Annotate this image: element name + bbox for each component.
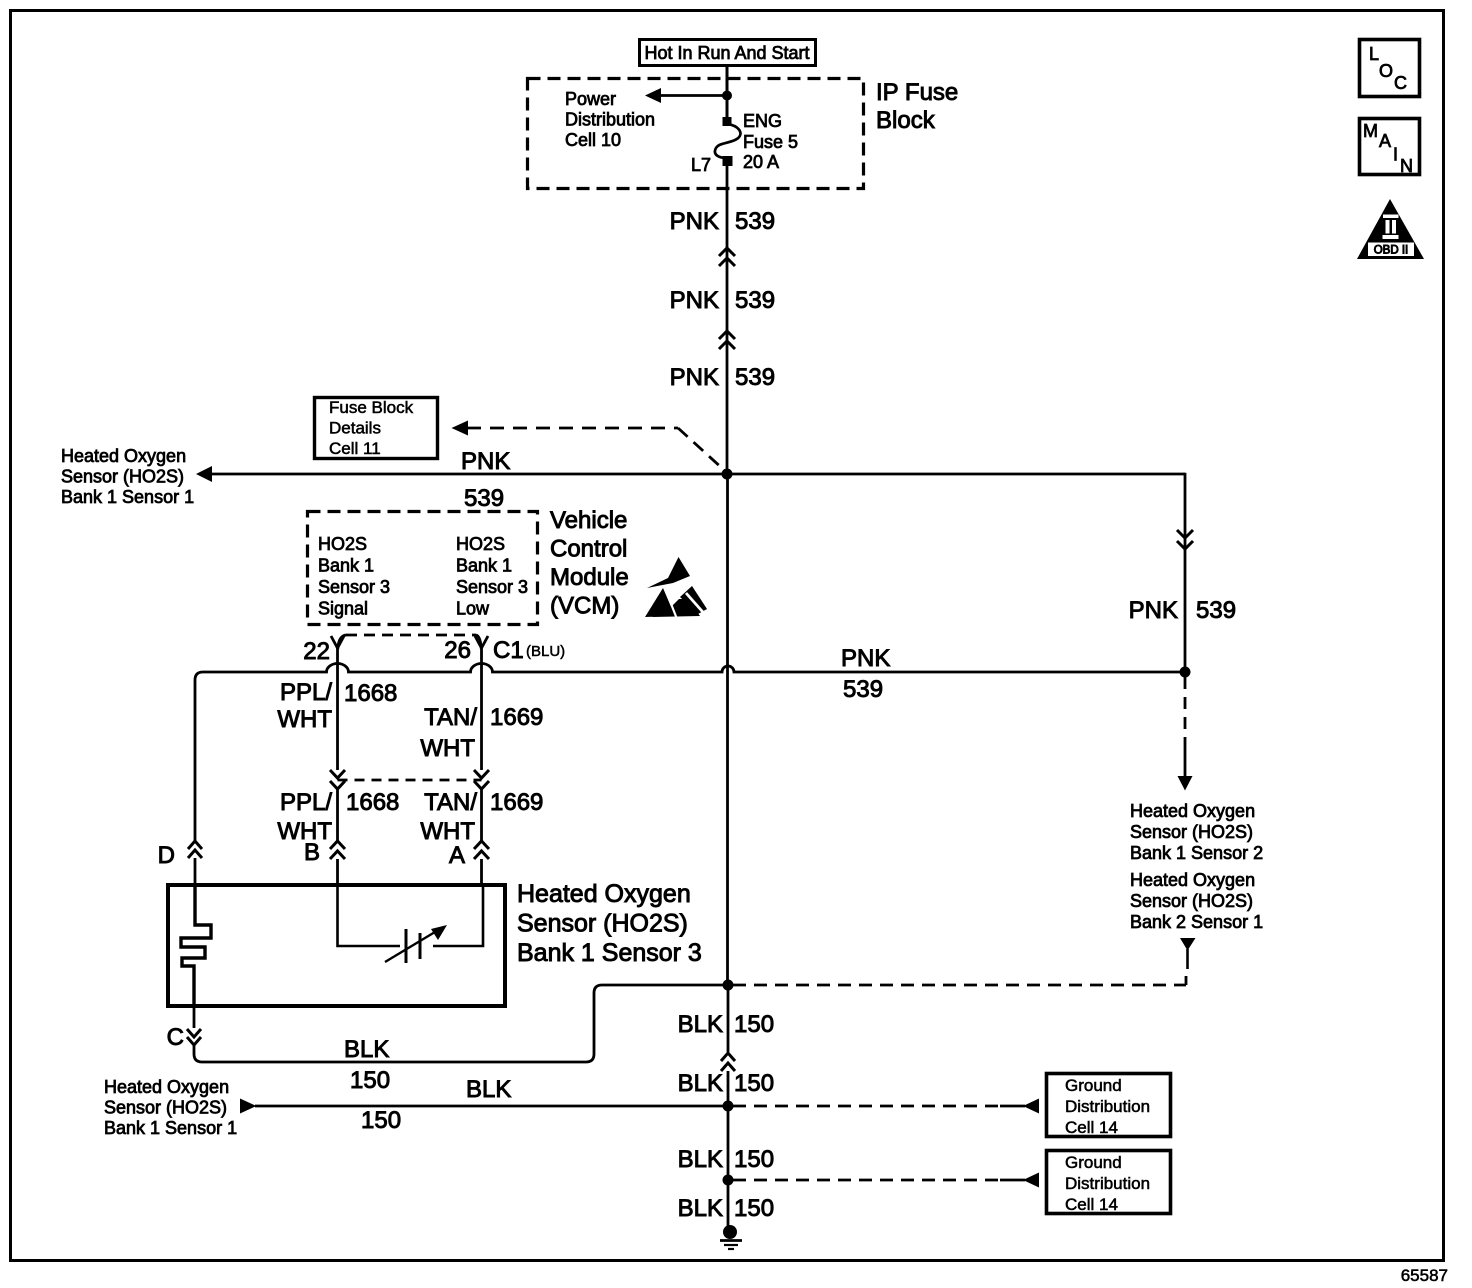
svg-text:Cell 11: Cell 11 [329, 439, 381, 458]
svg-text:539: 539 [735, 287, 775, 314]
svg-text:OBD II: OBD II [1374, 245, 1409, 257]
connector chevrons down on right PNK wire [1177, 530, 1193, 549]
svg-text:Bank 2 Sensor 1: Bank 2 Sensor 1 [1130, 912, 1263, 932]
svg-text:PNK: PNK [841, 645, 890, 672]
dashed wire to ground distribution 2 [733, 1179, 1000, 1182]
sensor pin A chevrons [474, 841, 489, 859]
svg-text:26: 26 [444, 637, 471, 664]
svg-text:Fuse Block: Fuse Block [329, 398, 414, 417]
pin 26 terminal [475, 636, 488, 648]
connector chevrons on BLK wire [721, 1053, 735, 1071]
wire 1668 lower [336, 789, 339, 841]
wire BLK main vertical [726, 474, 729, 985]
svg-text:BLK: BLK [678, 1011, 723, 1038]
svg-text:150: 150 [350, 1067, 390, 1094]
svg-text:Ground: Ground [1065, 1153, 1122, 1172]
svg-text:150: 150 [734, 1070, 774, 1097]
label BLK 150 fourth [678, 1195, 774, 1222]
label BLK 150 horizontal [361, 1076, 511, 1134]
svg-text:539: 539 [1196, 597, 1236, 624]
wire pin B internal [338, 886, 401, 946]
arrow to ground distribution 2 [1023, 1173, 1039, 1188]
IP Fuse Block label [876, 79, 958, 134]
wire BLK to ground junction [727, 1071, 730, 1180]
wire 1669 lower [480, 789, 483, 841]
node Heated Oxygen Sensor (HO2S) Bank 1 Sensor 2 [1130, 801, 1263, 863]
label BLK 150 third [678, 1146, 774, 1173]
wire PNK 539 fuse to main junction [726, 165, 729, 474]
svg-text:Ground: Ground [1065, 1076, 1122, 1095]
arrow down to HO2S sensors [1184, 744, 1187, 777]
svg-text:65587: 65587 [1401, 1266, 1448, 1285]
variable sense element [385, 929, 440, 963]
svg-text:Signal: Signal [318, 599, 368, 619]
svg-text:I: I [1393, 145, 1398, 165]
OBD II legend triangle [1357, 199, 1424, 259]
svg-text:Distribution: Distribution [1065, 1174, 1150, 1193]
junction BLK node S [723, 980, 734, 991]
connector chevrons on PNK wire [719, 248, 735, 266]
dashed hook up to right branch arrow [1185, 976, 1188, 985]
in-line connector chevrons pin B side [330, 770, 345, 789]
svg-text:TAN/: TAN/ [424, 704, 477, 731]
svg-text:IP Fuse: IP Fuse [876, 79, 958, 106]
svg-text:539: 539 [464, 485, 504, 512]
sensor label Heated Oxygen Sensor (HO2S) Bank 1 Sensor 3 [517, 880, 702, 967]
label PNK 539 horizontal [461, 448, 510, 512]
svg-text:Heated Oxygen: Heated Oxygen [517, 880, 691, 908]
sensor HO2S Bank 1 Sensor 3 box [168, 885, 505, 1006]
svg-text:Distribution: Distribution [1065, 1097, 1150, 1116]
svg-text:Block: Block [876, 107, 936, 134]
label BLK 150 from C [344, 1036, 390, 1094]
svg-text:1668: 1668 [344, 680, 397, 707]
svg-text:B: B [304, 839, 320, 866]
svg-text:150: 150 [734, 1011, 774, 1038]
svg-text:Low: Low [456, 599, 490, 619]
dashed wire to HO2S right branch [733, 984, 1186, 987]
wire BLK 150 to HO2S bank1 sensor1 [255, 1105, 728, 1108]
node Fuse Block Details Cell 11 [315, 398, 438, 459]
svg-text:Bank 1 Sensor 1: Bank 1 Sensor 1 [61, 487, 194, 507]
in-line connector dashed [338, 779, 482, 782]
wire BLK 150 from pin C [194, 985, 723, 1062]
svg-text:Distribution: Distribution [565, 110, 655, 130]
svg-text:Sensor (HO2S): Sensor (HO2S) [104, 1098, 227, 1118]
wire pin 26 low [480, 648, 483, 770]
svg-text:Sensor (HO2S): Sensor (HO2S) [517, 910, 688, 938]
svg-text:TAN/: TAN/ [424, 789, 477, 816]
svg-text:20 A: 20 A [743, 152, 779, 172]
svg-text:BLK: BLK [678, 1070, 723, 1097]
svg-text:PNK: PNK [461, 448, 510, 475]
svg-text:A: A [1379, 131, 1391, 151]
junction ground node 1 [723, 1101, 734, 1112]
pin 22 terminal [331, 636, 344, 648]
dashed wire to ground distribution 1 [733, 1105, 1000, 1108]
svg-text:539: 539 [843, 676, 883, 703]
wire pin D into sensor [194, 858, 197, 886]
pin label HO2S Bank 1 Sensor 3 Low [456, 534, 528, 619]
svg-text:Bank 1: Bank 1 [318, 556, 374, 576]
wire pin 22 signal [336, 648, 339, 770]
wire hot feed to fuse block [726, 66, 729, 122]
label PPL/WHT 1668 upper [277, 679, 397, 733]
svg-text:539: 539 [735, 364, 775, 391]
svg-text:Bank 1 Sensor 1: Bank 1 Sensor 1 [104, 1118, 237, 1138]
svg-text:A: A [449, 842, 465, 869]
dashed wire to fuse block details [467, 427, 678, 430]
connector C1 dashed top [338, 635, 346, 649]
svg-text:1668: 1668 [346, 789, 399, 816]
fuse F5 ENG 20A [715, 117, 741, 166]
svg-text:Sensor (HO2S): Sensor (HO2S) [1130, 822, 1253, 842]
svg-text:Bank 1 Sensor 3: Bank 1 Sensor 3 [517, 939, 702, 967]
svg-text:Cell 14: Cell 14 [1065, 1195, 1118, 1214]
svg-text:ENG: ENG [743, 111, 782, 131]
LOC legend box [1360, 40, 1420, 97]
svg-text:Heated Oxygen: Heated Oxygen [104, 1077, 229, 1097]
svg-text:N: N [1400, 156, 1413, 176]
node Heated Oxygen Sensor (HO2S) Bank 1 Sensor 1 [61, 446, 194, 507]
svg-text:BLK: BLK [344, 1036, 389, 1063]
svg-text:PNK: PNK [670, 208, 719, 235]
svg-text:L7: L7 [691, 155, 711, 175]
wire BLK to ground [727, 1180, 730, 1228]
svg-text:PNK: PNK [670, 364, 719, 391]
node Heated Oxygen Sensor (HO2S) Bank 1 Sensor 1 lower [104, 1077, 237, 1138]
svg-text:O: O [1379, 61, 1393, 81]
arrow to fuse block details [452, 421, 469, 436]
ground G108 [720, 1225, 742, 1249]
svg-text:WHT: WHT [277, 706, 332, 733]
label PNK 539 lower horizontal [841, 645, 890, 703]
sensor pin D chevrons [188, 841, 202, 858]
svg-text:(VCM): (VCM) [550, 593, 619, 620]
svg-text:539: 539 [735, 208, 775, 235]
junction ground node 2 [723, 1175, 734, 1186]
label BLK 150 first [678, 1011, 774, 1038]
label PNK 539 first [670, 208, 775, 235]
ESD sensitive symbol [645, 557, 707, 617]
svg-text:150: 150 [734, 1195, 774, 1222]
label PNK 539 right [1129, 597, 1236, 624]
svg-text:Module: Module [550, 564, 629, 591]
svg-text:Hot In Run And Start: Hot In Run And Start [644, 43, 809, 63]
dashed diagonal wire [678, 428, 723, 469]
arrow to ground distribution 1 [1023, 1099, 1039, 1114]
wire pin B into sensor [336, 859, 339, 886]
module VCM dashed box [308, 512, 538, 625]
wire pin A into sensor [480, 859, 483, 886]
node Hot In Run And Start [640, 40, 816, 66]
node Power Distribution Cell 10 [565, 89, 655, 150]
sensor pin C chevrons [187, 1029, 201, 1045]
svg-text:Sensor 3: Sensor 3 [456, 577, 528, 597]
label PPL/WHT 1668 lower [277, 789, 399, 845]
svg-text:Cell 10: Cell 10 [565, 130, 621, 150]
svg-text:22: 22 [303, 638, 330, 665]
svg-text:Bank 1 Sensor 2: Bank 1 Sensor 2 [1130, 843, 1263, 863]
svg-text:Sensor (HO2S): Sensor (HO2S) [61, 467, 184, 487]
label PNK 539 second [670, 287, 775, 314]
label TAN/WHT 1669 lower [420, 789, 543, 845]
node Ground Distribution Cell 14 box 1 [1047, 1074, 1171, 1138]
module label Vehicle Control Module (VCM) [550, 507, 629, 620]
svg-text:Sensor 3: Sensor 3 [318, 577, 390, 597]
svg-text:D: D [158, 842, 175, 869]
svg-text:150: 150 [734, 1146, 774, 1173]
svg-text:L: L [1369, 44, 1379, 64]
wire to power distribution [659, 94, 727, 97]
svg-text:Bank 1: Bank 1 [456, 556, 512, 576]
svg-text:Power: Power [565, 89, 616, 109]
heater element [181, 886, 211, 1008]
svg-text:Heated Oxygen: Heated Oxygen [1130, 801, 1255, 821]
svg-text:1669: 1669 [490, 789, 543, 816]
svg-text:WHT: WHT [420, 818, 475, 845]
dashed wire right PNK branch [1184, 677, 1187, 744]
svg-text:HO2S: HO2S [318, 534, 367, 554]
svg-text:Heated Oxygen: Heated Oxygen [1130, 870, 1255, 890]
svg-text:BLK: BLK [466, 1076, 511, 1103]
wire PNK right vertical drop [1184, 473, 1187, 672]
svg-text:PPL/: PPL/ [280, 789, 332, 816]
svg-text:WHT: WHT [420, 735, 475, 762]
connector chevrons on PNK wire [719, 331, 735, 349]
svg-text:Sensor (HO2S): Sensor (HO2S) [1130, 891, 1253, 911]
wire pin C out of sensor [193, 1006, 196, 1028]
svg-text:BLK: BLK [678, 1146, 723, 1173]
pin label HO2S Bank 1 Sensor 3 Signal [318, 534, 390, 619]
fuse value label ENG Fuse 5 20 A [743, 111, 798, 172]
svg-text:PPL/: PPL/ [280, 679, 332, 706]
svg-text:(BLU): (BLU) [526, 643, 565, 660]
label TAN/WHT 1669 upper [420, 704, 543, 762]
svg-text:PNK: PNK [1129, 597, 1178, 624]
svg-text:1669: 1669 [490, 704, 543, 731]
junction main PNK node [722, 469, 733, 480]
svg-text:Control: Control [550, 536, 627, 563]
arrow to power distribution [645, 88, 661, 103]
arrow from HO2S bank1 sensor1 [240, 1099, 257, 1114]
wire PNK 539 horizontal run [211, 473, 1185, 476]
wire BLK below junction [727, 985, 730, 1052]
svg-text:Fuse 5: Fuse 5 [743, 132, 798, 152]
node Heated Oxygen Sensor (HO2S) Bank 2 Sensor 1 [1130, 870, 1263, 932]
arrow to HO2S bank1 sensor1 [196, 466, 212, 482]
svg-text:M: M [1363, 121, 1378, 141]
arrow to HO2S sensors right branch lower [1180, 938, 1196, 951]
sensor pin B chevrons [330, 841, 345, 859]
IP Fuse Block box [528, 79, 864, 189]
svg-text:HO2S: HO2S [456, 534, 505, 554]
svg-text:Cell 14: Cell 14 [1065, 1118, 1118, 1137]
svg-text:C: C [167, 1024, 184, 1051]
label BLK 150 second [678, 1070, 774, 1097]
junction at fuse feed [722, 91, 732, 101]
wire pin A internal [433, 886, 483, 946]
svg-text:C: C [1394, 73, 1407, 93]
svg-text:Heated Oxygen: Heated Oxygen [61, 446, 186, 466]
junction right PNK node [1180, 667, 1191, 678]
svg-text:BLK: BLK [678, 1195, 723, 1222]
svg-text:150: 150 [361, 1107, 401, 1134]
wire PNK 539 to sensor pin D with hops [195, 664, 1181, 842]
svg-text:PNK: PNK [670, 287, 719, 314]
node Ground Distribution Cell 14 box 2 [1047, 1151, 1171, 1215]
svg-text:C1: C1 [493, 637, 524, 664]
svg-text:Vehicle: Vehicle [550, 507, 627, 534]
svg-text:Details: Details [329, 419, 381, 438]
label PNK 539 third [670, 364, 775, 391]
in-line connector chevrons pin A side [474, 770, 489, 789]
MAIN legend box [1360, 119, 1420, 177]
